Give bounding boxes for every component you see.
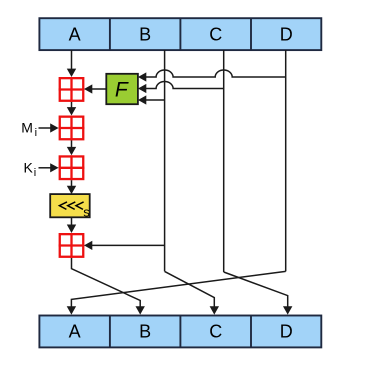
wire adder1 to adder2 xyxy=(71,102,73,108)
adder box 4 xyxy=(59,233,85,258)
svg-text:C: C xyxy=(209,24,222,44)
wire C to bottom D xyxy=(224,272,288,307)
svg-text:B: B xyxy=(139,321,151,341)
wire F output to adder 1 xyxy=(92,88,106,90)
svg-text:B: B xyxy=(139,24,151,44)
svg-text:A: A xyxy=(69,24,81,44)
svg-text:i: i xyxy=(34,167,36,179)
rotate-left box <<<s xyxy=(50,194,90,220)
wire B down from top bar xyxy=(164,50,166,271)
register bar top xyxy=(39,18,321,50)
wire C down from top bar xyxy=(223,50,225,272)
svg-text:K: K xyxy=(24,159,34,175)
wire D to bottom A xyxy=(71,271,285,306)
wire result to bottom B xyxy=(72,258,141,307)
svg-text:F: F xyxy=(115,78,129,101)
wire adder3 to rotate box xyxy=(71,180,73,186)
wire D down from top bar xyxy=(285,50,287,271)
wire A down from top bar xyxy=(71,50,73,69)
adder box 2 xyxy=(59,116,85,141)
svg-text:i: i xyxy=(35,127,37,139)
wire Ki into adder 3 xyxy=(39,167,51,169)
register bar bottom xyxy=(39,316,321,348)
wire rotate box to adder 4 xyxy=(71,217,73,225)
svg-text:A: A xyxy=(69,321,81,341)
wire B to bottom C xyxy=(165,271,215,306)
wire B into F (bottom input) xyxy=(146,99,165,101)
wire adder2 to adder3 xyxy=(71,141,73,148)
svg-text:D: D xyxy=(280,24,293,44)
svg-text:D: D xyxy=(280,321,293,341)
adder box 3 xyxy=(59,155,85,180)
adder box 1 xyxy=(59,77,85,102)
svg-text:C: C xyxy=(209,321,222,341)
svg-text:s: s xyxy=(83,205,90,220)
wire B into adder 4 xyxy=(92,244,165,246)
wire C into F (middle input) with hop over B xyxy=(146,82,224,89)
svg-text:M: M xyxy=(21,120,33,136)
function box F xyxy=(106,74,138,104)
wire D into F (top input) with hops over B and C xyxy=(146,70,286,77)
wire Mi into adder 2 xyxy=(39,127,51,129)
